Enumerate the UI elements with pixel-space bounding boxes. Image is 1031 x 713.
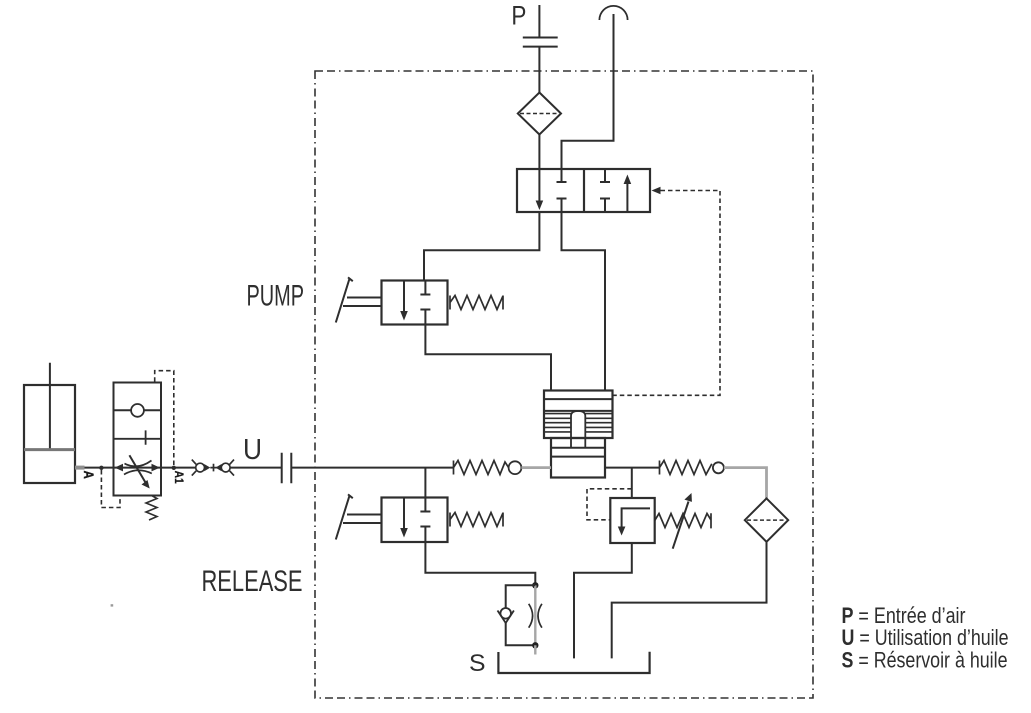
speck artifact: [111, 604, 114, 606]
relief valve flow arrow: [622, 508, 650, 528]
wire RELEASE valve top to main line: [424, 468, 426, 498]
svg-text:PUMP: PUMP: [247, 280, 305, 313]
CV3 ball: [500, 608, 511, 619]
check valve CV1 spring: [454, 461, 509, 475]
check ball section divider: [114, 409, 162, 411]
wire V1 left out to PUMP valve: [424, 212, 539, 281]
cylinder piston: [24, 448, 75, 451]
quick coupling half QC2: [221, 463, 230, 472]
svg-text:RELEASE: RELEASE: [202, 565, 303, 598]
V3 return spring: [450, 513, 503, 527]
cylinder port stub: [75, 466, 85, 470]
check valve CV2 ball: [713, 462, 724, 473]
wire to tank (gray): [534, 645, 536, 654]
junction dot top: [532, 582, 538, 588]
wire P inlet: [538, 5, 540, 93]
air filter: [518, 93, 561, 135]
through flow line with arrows: [114, 467, 162, 469]
relief valve body: [610, 498, 654, 543]
check valve CV1 ball: [509, 461, 522, 474]
cylinder rod: [49, 363, 51, 450]
V2 blocked port bottom: [420, 310, 430, 325]
V2 return spring: [450, 296, 503, 310]
V1 right cell flow arrow: [626, 183, 628, 212]
wire filter to valve V1: [538, 135, 540, 170]
pump hatch lines: [544, 414, 613, 432]
svg-text:S: S: [469, 650, 486, 677]
svg-text:A1: A1: [172, 471, 184, 485]
svg-text:A: A: [81, 471, 97, 479]
pilot-operated valve V1 body: [517, 169, 650, 212]
relief valve adjust arrow: [673, 502, 689, 549]
V1 right cell blocked port top: [600, 169, 610, 182]
V1 left cell blocked port top: [557, 169, 567, 182]
flow control bottom spring: [146, 496, 157, 521]
V3 blocked port top: [420, 498, 430, 512]
wire CV1 to pump (gray): [521, 466, 551, 469]
relief valve spring: [655, 513, 711, 528]
node A1 junction dot: [172, 466, 176, 470]
throttle arcs: [124, 461, 152, 475]
pump hydraulic section: [551, 438, 605, 478]
V3 flow arrow: [403, 498, 405, 530]
svg-text:P = Entrée d’air: P = Entrée d’air: [842, 603, 966, 628]
throttle adjust arrow: [129, 455, 145, 482]
orifice branch (gray): [534, 585, 536, 645]
quick coupling half QC1: [196, 463, 205, 472]
actuating cylinder: [24, 385, 75, 483]
wire V1 to pump motor: [562, 212, 606, 391]
wire flow control to couplings: [161, 467, 196, 469]
pilot line dashed from pump to V1: [614, 191, 721, 396]
flow control block body: [114, 383, 162, 496]
V2 flow arrow: [403, 281, 405, 313]
pump piston: [571, 411, 585, 447]
pilot line arrowhead into V1: [652, 187, 661, 194]
check ball: [131, 404, 144, 417]
wire cylinder to flow control: [85, 467, 114, 469]
wire main line to relief valve: [631, 468, 633, 498]
V1 left cell blocked port bottom: [557, 199, 567, 213]
relief valve pilot dashed: [587, 489, 632, 520]
V3 blocked port bottom: [420, 527, 430, 543]
wire V2 to pump: [425, 325, 551, 391]
oil filter: [745, 498, 788, 541]
junction dot bottom: [532, 642, 538, 648]
svg-text:S = Réservoir à huile: S = Réservoir à huile: [842, 647, 1008, 672]
wire U into enclosure: [291, 467, 453, 469]
wire QC2 to U coupling: [230, 467, 282, 469]
wire relief valve to tank: [574, 543, 632, 658]
wire pump to relief junction: [605, 467, 660, 469]
quick coupling at P: [523, 38, 558, 47]
CV3 seat: [498, 611, 514, 624]
seat section divider: [114, 430, 162, 444]
RELEASE valve V3 body: [382, 498, 448, 543]
air-hydraulic pump: air section: [544, 391, 613, 439]
pilot dashed A1 to flow control top: [155, 371, 174, 465]
check valve CV3 branch: [506, 585, 536, 608]
svg-text:P: P: [511, 1, 526, 31]
PUMP valve V2 body: [382, 281, 448, 325]
wire CV2 to oil filter (gray): [724, 468, 767, 499]
orifice arcs: [529, 604, 542, 628]
quick coupling at U: [282, 453, 292, 483]
tank: [498, 652, 649, 673]
pilot dashed node A to flow control: [101, 470, 120, 508]
V2 blocked port top: [420, 281, 430, 295]
svg-text:U: U: [243, 434, 262, 466]
coupling link: [210, 464, 221, 472]
wire V3 to check/orifice: [425, 542, 535, 583]
lever actuator of RELEASE valve: [336, 494, 382, 539]
lever actuator of PUMP valve: [336, 277, 382, 322]
node A junction dot: [99, 466, 103, 470]
exhaust silencer: [599, 6, 627, 20]
V1 right cell blocked port bottom: [600, 199, 610, 213]
enclosure dashed boundary: [315, 71, 813, 698]
wire exhaust to valve V1: [562, 14, 614, 169]
wire oil filter to tank: [612, 542, 767, 659]
check valve CV2 spring: [660, 461, 712, 475]
V1 left cell flow arrow: [538, 169, 540, 201]
